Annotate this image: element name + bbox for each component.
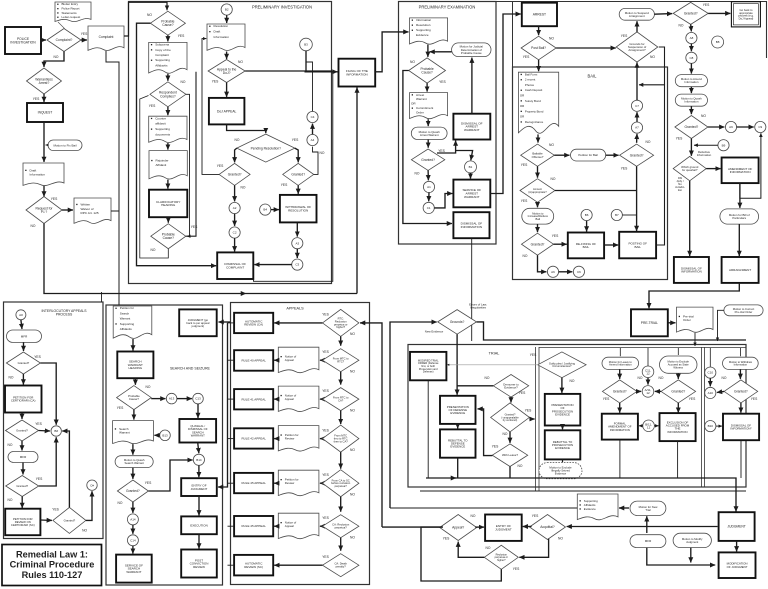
wire A14 to C14 [132,525,134,534]
svg-text:JUDGMENT: JUDGMENT [191,487,208,491]
wire B11 to formal [639,425,643,427]
process REBUTTAL TO PROSECUTION EVIDENCE [545,430,581,459]
svg-text:NO: NO [8,498,13,502]
svg-text:RULE 42 APPEAL: RULE 42 APPEAL [241,437,266,441]
svg-text:Arraignment?: Arraignment? [628,48,646,52]
svg-text:Complaint: Complaint [155,53,169,57]
svg-text:Appeal: Appeal [285,524,294,528]
process PRE-TRIAL [631,309,668,336]
svg-text:Rules 110-127: Rules 110-127 [22,570,83,580]
svg-text:affidavit: affidavit [155,122,166,126]
connector B6 [581,209,592,220]
svg-text:INQUEST: INQUEST [38,111,53,115]
svg-text:Granted?: Granted? [64,518,76,522]
decision Granted? search [117,480,148,502]
document Complaint [88,26,124,51]
svg-text:A13: A13 [169,397,175,401]
wire B10 to dismissal [716,425,722,427]
wire new evidence into grounds [390,322,437,508]
decision Granted? bail [620,144,654,166]
svg-text:B#: B# [54,429,58,433]
svg-text:WARRANT: WARRANT [464,195,480,199]
svg-text:NO: NO [486,546,491,550]
svg-text:Circumstances?: Circumstances? [552,364,572,368]
svg-text:NO: NO [570,379,575,383]
document Rejoinder Affidavit [149,151,187,179]
svg-text:Order: Order [416,111,424,115]
svg-text:P.I.?: P.I.? [41,210,48,214]
svg-text:then to CA?: then to CA? [334,440,349,444]
wire granted withdraw yes [740,403,742,413]
document Draft Information [23,163,64,186]
wire posting of bail out [639,85,665,245]
svg-text:YES: YES [519,391,526,395]
svg-text:Granted?: Granted? [685,125,699,129]
decision Request for P.I.? [26,197,62,224]
svg-text:New Evidence: New Evidence [425,330,444,334]
wire appeals no down 1 [340,372,342,385]
svg-text:ARREST: ARREST [533,13,546,17]
connector A14 [127,514,138,525]
process RULE 42 APPEAL [234,428,273,448]
wire granted R no to A4 [313,147,319,175]
wire C10 to A10 [709,378,711,386]
svg-text:NO: NO [82,529,87,533]
svg-text:C#: C# [90,483,94,487]
svg-text:EXECUTION: EXECUTION [190,523,208,527]
decision From MTC to 1 [323,349,359,372]
svg-text:Particulars: Particulars [732,216,746,220]
svg-text:YES: YES [52,508,59,512]
wire C11 to A11 [647,378,649,385]
wire appeals no down 3 [340,452,342,469]
decision Acquittal? [530,515,566,540]
svg-text:Arrest Warrant: Arrest Warrant [420,133,439,137]
wire demurrer yes down [510,397,512,402]
wire doj appeal to pending [227,124,266,133]
svg-text:Commitment: Commitment [416,106,433,110]
wire B9 to quash path [694,144,718,146]
svg-text:YES: YES [191,225,198,229]
connector C7 [631,100,642,111]
svg-text:YES: YES [621,167,628,171]
svg-text:INFORMATION: INFORMATION [610,428,630,432]
svg-text:Granted?: Granted? [684,12,698,16]
svg-text:Bail: Bail [536,217,541,221]
wire leave amend to granted [619,369,621,379]
section APPEALS [231,303,370,585]
motion for bill of particulars [720,209,759,224]
connector B13 [160,430,171,441]
svg-text:Arraignment: Arraignment [629,14,645,18]
wire grounds to trial top [477,322,747,340]
decision From CA to SC 4 [323,470,359,497]
decision Appeal to the DoJ? [208,60,245,83]
wire pc2 yes loop to filing line [186,72,196,236]
svg-text:NO: NO [151,248,156,252]
process MODIFICATION OF JUDGMENT [719,552,756,578]
wire C11 top [647,348,649,366]
process SERVICE OF SEARCH WARRANT [116,555,152,583]
svg-text:YES: YES [217,164,224,168]
wire refixing to posting [604,244,618,246]
wire box left stub 4 [228,482,235,484]
wire judgment to modification [736,541,738,552]
svg-text:B4: B4 [263,208,267,212]
svg-text:B2: B2 [225,8,229,12]
connector C10 [705,367,716,378]
svg-text:OF JUDGMENT: OF JUDGMENT [727,565,748,569]
svg-text:Granted?: Granted? [16,484,28,488]
wire granted q no to A9 [708,126,725,128]
wire C10 top [709,348,711,367]
motion to quash information [675,94,707,106]
svg-text:A14: A14 [130,518,136,522]
wire A1 to C1 [428,193,430,202]
svg-text:Irregularities: Irregularities [470,306,486,310]
wire rebuttal pros down [562,459,564,462]
connector B10 [705,421,716,432]
svg-text:Blotter Entry: Blotter Entry [62,2,79,6]
wire A4 to C4 [312,124,314,135]
svg-text:PROCESS: PROCESS [56,313,73,317]
svg-text:NO: NO [320,151,325,155]
svg-text:Arrest: Arrest [416,93,424,97]
svg-text:documents: documents [155,132,170,136]
svg-text:Granted?: Granted? [630,153,644,157]
svg-text:YES: YES [322,473,329,477]
wire granted q yes to which ground [690,139,692,156]
wire dismissal info pe down [471,238,473,341]
wire granted exclude yes [677,403,679,413]
wire motion increase to granted refix [537,224,539,232]
wire appeal doj yes [226,83,228,97]
svg-text:Affidavits: Affidavits [155,63,168,67]
svg-text:Draft: Draft [214,30,221,34]
decision Granted? demurrer [491,403,530,432]
svg-text:C2: C2 [233,231,237,235]
decision Granted? withdraw [724,380,758,403]
svg-text:Cause?: Cause? [162,23,174,27]
svg-text:MFR: MFR [21,334,28,338]
decision Post Bail? [521,36,556,60]
svg-text:NO: NO [551,177,556,181]
wire waiver join [111,210,119,212]
wire bail doc to bailable [537,134,539,142]
svg-text:YES: YES [178,34,185,38]
svg-text:YES: YES [36,477,43,481]
wire granted i3 yes loop [39,437,57,486]
motion to withdraw information [723,357,759,369]
svg-text:perpetua?: perpetua? [335,526,348,530]
svg-text:YES: YES [322,555,329,559]
svg-text:INFORMATION*: INFORMATION* [730,427,752,431]
svg-text:YES: YES [322,516,329,520]
svg-text:EVIDENCE: EVIDENCE [555,446,570,450]
wire C2 to dismissal complaint [234,238,236,251]
svg-text:Pending Resolution?: Pending Resolution? [251,146,282,150]
svg-text:NO: NO [118,501,123,505]
wire C1 to service aw [434,194,452,208]
decision Probable Cause? PE [409,58,446,83]
wire no pi line cont [246,293,357,295]
wire respondent no loop [186,94,190,236]
process FILING OF THE INFORMATION [339,59,376,87]
process AMENDMENT OF INFORMATION [722,158,759,184]
wire respondent yes to counter [167,107,169,115]
wire B2 to resolution doc [226,15,228,23]
svg-text:higher?: higher? [336,325,345,329]
svg-text:Petition for: Petition for [120,306,134,310]
document bail requirements [518,72,558,133]
wire granted search no to A14 [132,502,134,513]
wire complaint yes [81,39,87,41]
wire rejoinder to clarificatory [167,180,169,189]
process DISMISSAL OF INFORMATION PE [453,212,489,238]
wire appeals no down 2 [340,411,342,425]
wire granted demurrer yes [529,418,534,420]
svg-text:A6: A6 [551,270,555,274]
wire reviewed no to appeal [458,542,484,558]
svg-text:OR: OR [520,104,524,108]
svg-text:B13: B13 [162,433,168,437]
process POSTING OF BAIL [619,232,656,258]
connector B1 [465,161,477,173]
decision Granted? quash aw [411,149,444,170]
process POLICE INVESTIGATION [5,27,41,54]
wire motion amend to quash [690,87,692,93]
decision Granted? i1 [6,352,40,374]
svg-text:CERTIORARI (SC): CERTIORARI (SC) [11,523,35,527]
process RULE 40 APPEAL [234,350,273,371]
document Resolution Draft Information [207,24,245,50]
svg-text:Supporting: Supporting [155,127,170,131]
svg-text:Complies?: Complies? [160,94,176,98]
wire pending yes [295,148,298,162]
process WITHDRAWAL OF RESOLUTION [280,195,317,223]
svg-text:Supporting: Supporting [416,28,431,32]
svg-text:Probable Cause: Probable Cause [461,51,482,55]
title box Remedial Law 1 Criminal Procedure Rules 110-127 [2,545,102,586]
wire C3 to dismissal complaint [254,264,291,266]
trial inner divider left a [535,347,537,491]
svg-text:MFR: MFR [645,539,652,543]
trial inner divider [701,347,703,487]
svg-text:WARRANT: WARRANT [464,128,480,132]
svg-text:NO: NO [31,224,36,228]
wire which ground right [706,168,720,170]
connector B8 [712,36,724,48]
wire filing down to no-PI line [356,88,358,294]
svg-text:NO: NO [350,408,355,412]
svg-text:YES: YES [322,428,329,432]
wire service aw to arrest [490,14,521,194]
svg-text:A7: A7 [635,126,639,130]
svg-text:YES: YES [443,537,450,541]
svg-text:CERTIORARI (CA): CERTIORARI (CA) [11,399,36,403]
connector B9 [718,140,729,151]
svg-text:tion: tion [678,188,683,192]
svg-text:NO: NO [181,80,186,84]
svg-text:Resolution: Resolution [214,24,229,28]
section PRELIMINARY EXAMINATION [399,2,497,245]
wire petition ca to granted i2 [21,413,23,420]
svg-text:C6: C6 [577,270,581,274]
wire arrest doc to quash motion [427,119,429,126]
wire warrantless yes to inquest [43,94,45,102]
process AUTOMATIC REVIEW (CA) [234,313,273,333]
wire execution to post conviction [198,534,200,548]
motion to suspend arraignment [619,8,654,20]
svg-text:ARRAIGNMENT: ARRAIGNMENT [729,268,751,272]
connector C2 [229,227,240,238]
svg-text:RPC Art. 125: RPC Art. 125 [81,211,99,215]
document Petition for 4 [278,470,319,495]
document Petition for 3 [278,426,319,451]
decision With Leave? [492,444,527,467]
process DISMISSAL OF INFORMATION bail [674,257,709,283]
svg-text:NO: NO [146,385,151,389]
wire withdraw top [739,348,741,356]
svg-text:REVIEW (CA): REVIEW (CA) [244,323,263,327]
section PRELIMINARY INVESTIGATION [129,2,332,284]
decision Granted? arraignment [673,2,708,24]
wire acquittal yes to entry [523,526,532,528]
wire granted refix yes [554,243,567,245]
wire appeals no down 5 [340,538,342,551]
process ARRAIGNMENT [722,257,759,283]
document Counter affidavit [149,116,187,142]
wire diamond yes to doc 1 [320,359,323,361]
svg-text:B6: B6 [585,213,589,217]
svg-text:Granted?: Granted? [291,173,305,177]
motion for leave to amend information [602,357,639,369]
svg-text:YES: YES [532,514,539,518]
connector C1 [423,202,434,213]
svg-text:COMPLAINT: COMPLAINT [226,266,244,270]
svg-text:Information: Information [30,173,46,177]
connector A3 [292,238,303,249]
svg-text:higher?: higher? [497,558,506,562]
decision Grounds? [438,310,477,335]
wire judicial motion pointer [430,51,452,53]
decision Respondent Complies? [150,82,186,107]
svg-text:YES: YES [676,137,683,141]
wire doc supporting left [390,507,577,509]
process EXECUTION [181,516,217,534]
motion to amend information [675,75,707,87]
svg-text:NO: NO [350,535,355,539]
decision From MTC 3 [323,425,359,452]
svg-text:Witness: Witness [673,366,683,370]
wire MFR1 to granted i1 [23,342,25,351]
svg-text:Granted?: Granted? [421,158,435,162]
wire counter to rejoinder [167,143,169,150]
petition for bail [571,149,606,161]
wire draft info to request pi [43,186,45,197]
wire granted i3 no [21,497,23,509]
decision Appeal? [440,515,477,541]
svg-text:penalty?: penalty? [336,565,347,569]
svg-text:YES: YES [751,397,758,401]
svg-text:Appeal: Appeal [285,397,294,401]
connector A4 [307,134,318,145]
svg-text:Offense?: Offense? [532,155,544,159]
svg-text:Affidavit: Affidavit [156,163,167,167]
wire post bail yes [538,60,540,71]
svg-text:NO: NO [701,114,706,118]
svg-text:WARRANT: WARRANT [191,433,205,437]
svg-text:Granted?: Granted? [613,390,627,394]
process RULE 41 APPEAL [234,389,273,409]
wire motion quash to granted q [690,106,692,114]
svg-text:Granted?: Granted? [734,390,748,394]
svg-text:Pre-trial Order: Pre-trial Order [735,310,753,314]
wire granted i4 up to B [62,431,69,507]
svg-text:YES: YES [33,97,40,101]
process QUASHAL DISMISSAL OF SEARCH WARRANT [179,419,216,443]
wire box left stub 3 [228,438,235,440]
svg-text:NO: NO [9,376,14,380]
decision CA: Death 6 [323,554,359,577]
svg-text:Cash Deposit: Cash Deposit [525,88,543,92]
wire pretrial order doc down [694,333,696,346]
process RULE 45 APPEAL [234,473,273,493]
connector C sharp [87,480,97,490]
svg-text:BAIL: BAIL [588,74,598,79]
wire blotter to complaint [58,22,65,29]
process JUDGMENT go back [179,309,217,336]
svg-text:NO: NO [238,60,243,64]
decision Bailable Offense? [521,144,555,166]
wire granted R yes to withdrawal [297,185,299,194]
svg-text:B9: B9 [722,143,726,147]
svg-text:Defense): Defense) [423,370,434,374]
wire diamond yes to doc 3 [320,438,323,440]
motion for judicial determination of probable cause [452,43,491,57]
process AUTOMATIC REVIEW (SC) [234,555,273,576]
wire granted L no to A2 [234,185,236,201]
svg-text:12: 12 [646,391,650,395]
svg-text:Review: Review [285,481,295,485]
wire presentation pros to rebuttal [562,426,564,430]
wire trial bottom bus b [455,478,736,512]
wire A13 to C13 [177,398,192,400]
decision Which ground for quashal? [673,156,706,180]
wire doc to box 3 [274,438,278,440]
wire pretrial to order doc [668,322,676,324]
wire diamond yes to doc 4 [320,482,323,484]
section INTERLOCUTORY APPEALS PROCESS [4,302,104,539]
wire A8 to C8 [690,44,692,52]
connector A13 [166,393,177,404]
wire amendment to bill particulars [739,183,741,208]
wire arraignment to pretrial [649,283,739,308]
svg-text:Written: Written [81,202,91,206]
document Pre-trial Order [677,307,714,332]
wire box left stub 5 [228,525,235,527]
wire granted bail yes down to posting [636,166,638,231]
svg-text:NO: NO [549,143,554,147]
wire trial bottom bus a [426,477,456,479]
wire B1 to service aw [470,173,472,179]
decision Granted? left PI [219,163,250,185]
svg-text:C10: C10 [708,371,714,375]
svg-text:NO: NO [350,448,355,452]
wire pc search no to A13 [151,398,165,400]
wire bailable yes to amount [537,166,539,177]
motion for new trial [630,501,666,515]
